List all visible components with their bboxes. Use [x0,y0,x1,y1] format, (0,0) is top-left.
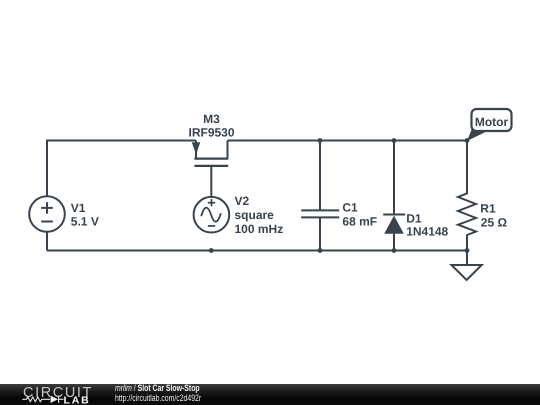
svg-text:LAB: LAB [64,394,91,405]
voltage source V1 [29,196,65,232]
node dot D1 top [392,138,397,143]
svg-text:IRF9530: IRF9530 [188,125,234,139]
ground symbol [452,251,482,281]
wire C1 top lead [319,141,321,211]
node dot V2 bottom [209,248,214,253]
wire C1 bottom lead [319,217,321,250]
svg-text:68 mF: 68 mF [342,215,377,229]
wire D1 top lead [393,141,395,215]
CircuitLab logo [0,384,110,405]
capacitor C1 plates [301,210,339,217]
svg-text:D1: D1 [406,212,422,226]
transistor M3 source arrow [192,142,201,156]
svg-text:25 Ω: 25 Ω [481,216,508,230]
wire M3 gate to V2 [210,166,212,197]
svg-text:V2: V2 [235,194,250,208]
footer bar [0,384,540,405]
svg-text:5.1 V: 5.1 V [71,215,99,229]
svg-text:M3: M3 [203,112,220,126]
svg-text:square: square [235,208,275,222]
wire V1 bottom lead [46,232,48,251]
svg-text:100 mHz: 100 mHz [235,222,284,236]
svg-text:R1: R1 [480,201,496,215]
wire D1 bottom lead [393,234,395,251]
voltage source V2 [194,197,230,233]
svg-text:C1: C1 [342,200,358,214]
wire top rail: M3 drain to Motor node [228,140,468,142]
wire top-left: V1 plus to M3 source [47,141,196,197]
transistor M3 body [194,141,228,166]
svg-text:V1: V1 [71,201,86,215]
svg-text:Motor: Motor [475,115,509,129]
node dot C1 bottom [318,248,323,253]
Motor net flag [467,109,512,141]
node dot Motor [465,138,470,143]
diode D1 [383,215,405,234]
node dot R1 bottom [465,248,470,253]
node dot C1 top [318,138,323,143]
footer title text [115,384,201,403]
svg-text:1N4148: 1N4148 [406,225,448,239]
resistor R1 [458,141,476,251]
node dot D1 bottom [392,248,397,253]
wire bottom rail [47,250,467,252]
